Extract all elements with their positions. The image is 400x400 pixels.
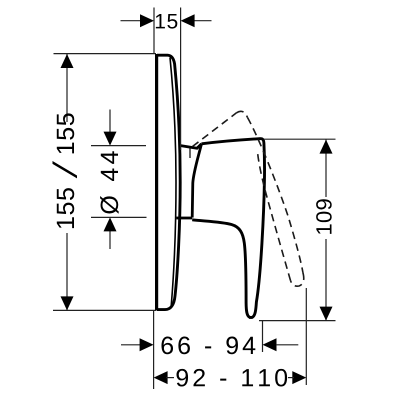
handle stem bottom edge xyxy=(177,217,193,220)
dim 155/155: dimension line lower segment xyxy=(66,233,68,310)
dim 109: bottom extension line xyxy=(259,320,336,322)
handle stem inner stub xyxy=(189,149,191,159)
dim 66-94: left tail line xyxy=(121,344,141,346)
dim diam44: lower arrow xyxy=(104,217,117,231)
dim diam44: bottom extension line xyxy=(91,216,147,218)
dim 92-110: left arrow xyxy=(154,371,168,384)
dim 109: dimension line lower segment xyxy=(325,239,327,320)
dim 155/155: bottom arrow xyxy=(61,296,74,310)
handle lever top edge xyxy=(202,139,262,144)
dim 109: bottom arrow xyxy=(320,307,333,321)
dim 66-94: right tail line xyxy=(276,344,298,346)
dim 109: top arrow xyxy=(320,140,333,154)
dim diam44: upper tail line xyxy=(109,110,111,133)
dim 66-94: right arrow xyxy=(263,338,277,351)
handle lever lower-left edge and tail xyxy=(192,220,252,318)
dim diam44: upper arrow xyxy=(104,132,117,146)
dim 15: right tail line xyxy=(194,20,212,22)
dashed raised-handle corner arc xyxy=(237,111,248,117)
dim 15: label xyxy=(156,14,177,29)
dim 15: right extension line xyxy=(180,8,182,151)
dashed raised-handle inner edge (segment C) xyxy=(258,152,291,281)
dim 109: dimension line upper segment xyxy=(325,140,327,197)
dim 92-110: right arrow xyxy=(292,371,306,384)
dim 155/155: bottom extension line xyxy=(53,309,156,311)
dim 109: top extension line xyxy=(264,138,336,140)
dashed raised-handle tip arc xyxy=(291,273,304,287)
dim 92-110: label xyxy=(177,369,288,387)
dim diam44: label xyxy=(100,151,119,214)
handle lever right edge xyxy=(249,139,265,318)
dim 155/155: dimension line upper segment xyxy=(66,54,68,122)
dim 92-110: right line segment xyxy=(288,377,294,379)
shared left extension line below plate xyxy=(153,311,155,389)
dim 155/155: top arrow xyxy=(61,54,74,68)
escutcheon plate outline xyxy=(157,55,180,309)
dim 15: left extension line xyxy=(153,8,155,54)
dim 92-110: left line segment xyxy=(166,377,174,379)
extension line from dashed tip down to dim 92-110 xyxy=(305,288,307,385)
dim 66-94: left arrow xyxy=(140,338,154,351)
dim diam44: top extension line xyxy=(91,145,146,147)
plate left edge xyxy=(155,54,158,311)
handle stem top edge xyxy=(179,144,202,148)
dim 15: left tail line xyxy=(121,20,142,22)
dim 66-94: label xyxy=(161,337,255,355)
dim 109: label xyxy=(316,199,332,234)
plate inner rim curve xyxy=(170,58,176,307)
dim 15: left arrow xyxy=(140,14,154,27)
handle stem left edge xyxy=(192,144,201,218)
extension line from handle edge down to dim 66-94 xyxy=(262,321,264,352)
dashed raised-handle top edge (segment A) xyxy=(193,113,237,147)
dim 155/155: label xyxy=(53,113,78,228)
dim 15: right arrow xyxy=(181,14,195,27)
dim diam44: lower tail line xyxy=(109,231,111,249)
dim 155/155: top extension line xyxy=(54,53,157,55)
dashed raised-handle outer edge (segment B) xyxy=(248,118,303,273)
